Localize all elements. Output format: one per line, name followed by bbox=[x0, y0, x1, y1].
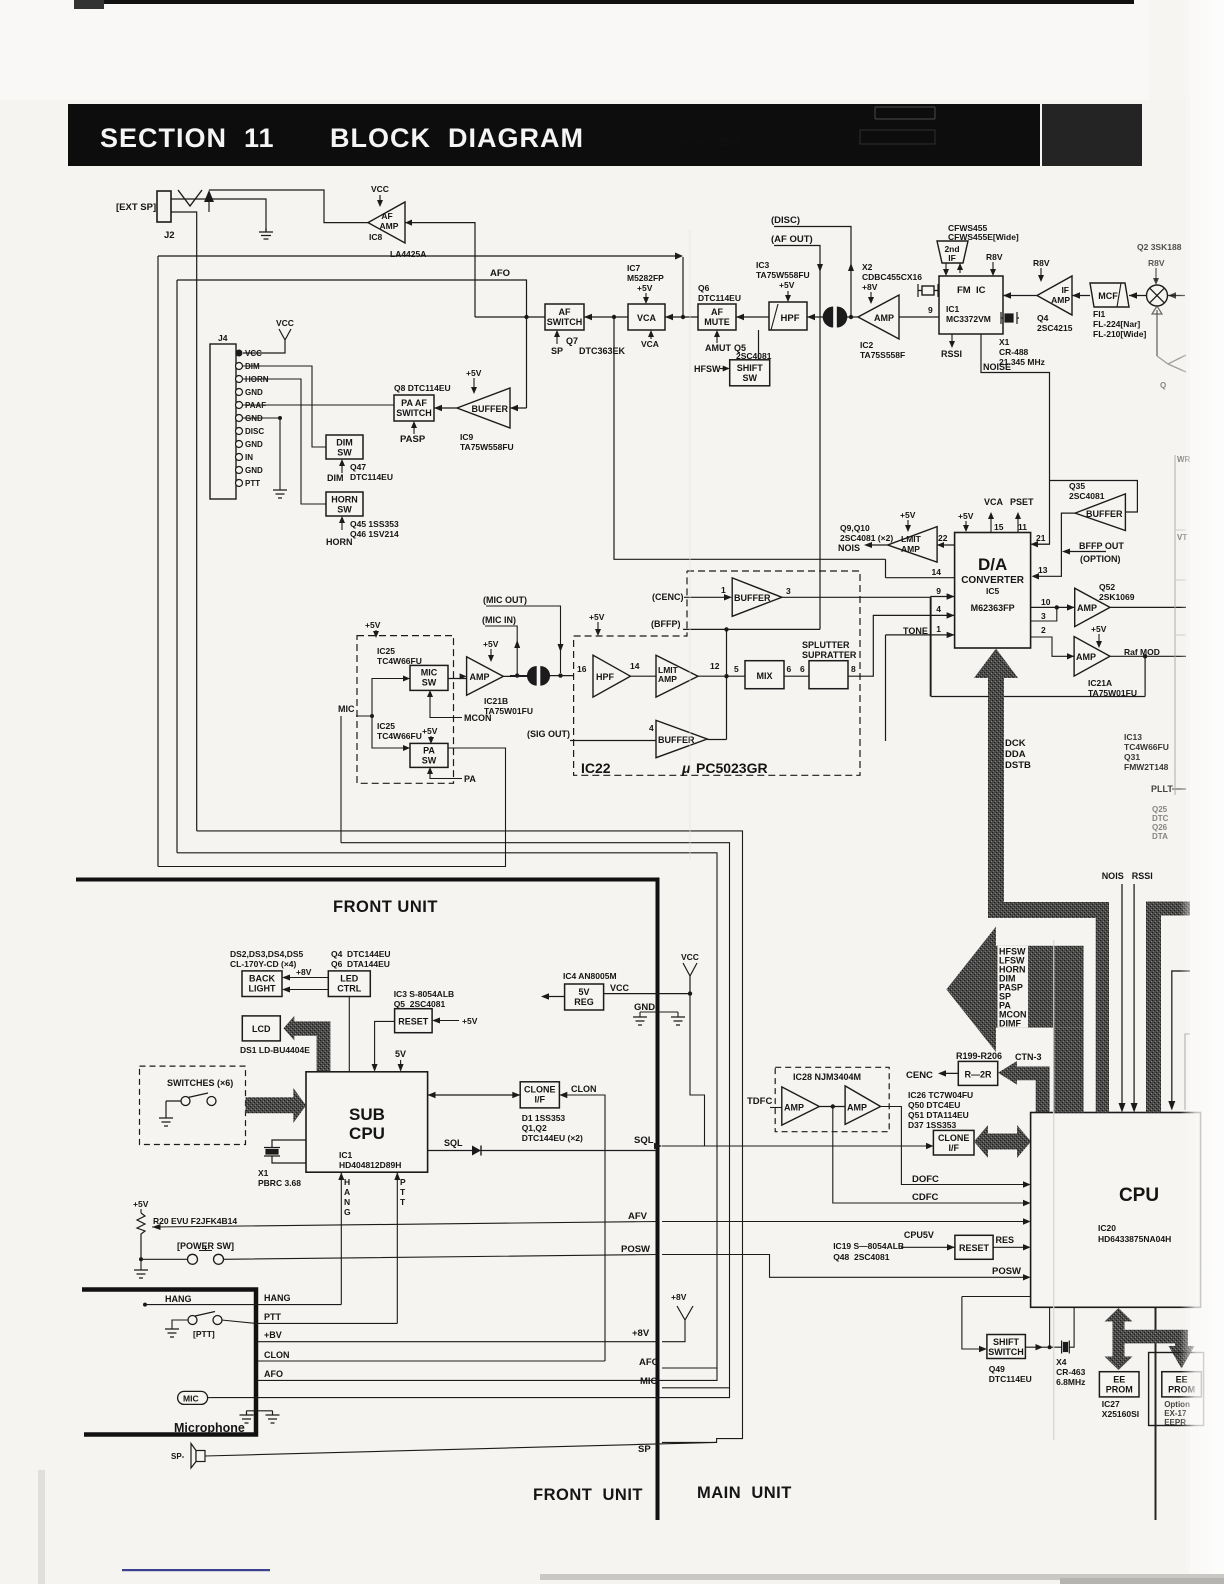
svg-text:11: 11 bbox=[1018, 522, 1027, 532]
wire buffer to PA AF SWITCH bbox=[434, 407, 457, 409]
svg-text:X1: X1 bbox=[258, 1168, 269, 1178]
dashed box IC25 MIC/PA SW bbox=[357, 636, 454, 784]
svg-text:5: 5 bbox=[734, 664, 739, 674]
svg-text:R199-R206: R199-R206 bbox=[956, 1051, 1002, 1061]
svg-text:FRONT UNIT: FRONT UNIT bbox=[333, 898, 438, 916]
pin 14 wire bbox=[886, 559, 955, 577]
svg-text:X25160SI: X25160SI bbox=[1102, 1409, 1139, 1419]
svg-text:2SC4081: 2SC4081 bbox=[1069, 491, 1105, 501]
svg-text:SW: SW bbox=[422, 678, 437, 688]
top page edge black sliver bbox=[74, 0, 1134, 4]
wire HANG bbox=[145, 1304, 341, 1306]
svg-text:DS1 LD-BU4404E: DS1 LD-BU4404E bbox=[240, 1045, 310, 1055]
svg-text:IC21A: IC21A bbox=[1088, 678, 1112, 688]
wire GND bus bbox=[243, 418, 280, 490]
svg-text:14: 14 bbox=[630, 661, 640, 671]
amp1 (IC28a) bbox=[782, 1087, 820, 1125]
svg-text:+5V: +5V bbox=[589, 612, 605, 622]
svg-text:+5V: +5V bbox=[637, 283, 653, 293]
wire buffer input bbox=[510, 407, 527, 409]
wire bus B (SP net) bbox=[177, 853, 717, 1368]
blue pen mark bottom left bbox=[122, 1569, 270, 1571]
DOFC wire bbox=[881, 1107, 1027, 1185]
svg-text:LMIT: LMIT bbox=[901, 534, 922, 544]
svg-text:DIM: DIM bbox=[327, 473, 344, 483]
wire MCF to IF AMP bbox=[1072, 295, 1090, 297]
wire HPF input from cap bbox=[807, 316, 825, 318]
svg-text:IC3: IC3 bbox=[756, 260, 770, 270]
svg-text:AMP: AMP bbox=[1051, 295, 1070, 305]
svg-text:+5V: +5V bbox=[365, 620, 381, 630]
svg-text:DSTB: DSTB bbox=[1005, 760, 1031, 771]
svg-text:Q47: Q47 bbox=[350, 462, 366, 472]
svg-text:SP: SP bbox=[551, 346, 563, 356]
svg-text:AFO: AFO bbox=[639, 1357, 659, 1368]
svg-text:3: 3 bbox=[1041, 611, 1046, 621]
svg-text:Q7: Q7 bbox=[566, 336, 578, 346]
CPU box IC20 bbox=[1031, 1113, 1201, 1308]
wire: jack contact to ground bbox=[171, 199, 266, 232]
svg-text:SQL: SQL bbox=[444, 1138, 463, 1148]
svg-text:DTC114EU: DTC114EU bbox=[989, 1374, 1032, 1384]
svg-text:15: 15 bbox=[994, 522, 1004, 532]
svg-text:TA75W558FU: TA75W558FU bbox=[460, 442, 514, 452]
svg-text:IF: IF bbox=[948, 253, 956, 263]
svg-text:DTC: DTC bbox=[1152, 814, 1169, 823]
svg-text:Q31: Q31 bbox=[1124, 752, 1140, 762]
svg-text:HORN: HORN bbox=[331, 495, 358, 505]
svg-text:R8V: R8V bbox=[1033, 258, 1050, 268]
FRONT UNIT thick border + MAIN UNIT divider bbox=[76, 880, 658, 1521]
svg-text:BUFFER: BUFFER bbox=[1086, 509, 1123, 519]
hatched L arrow to EEPROM2 bbox=[1125, 1330, 1195, 1369]
svg-text:CLONE: CLONE bbox=[524, 1085, 556, 1095]
SWITCHES dashed box bbox=[140, 1066, 246, 1144]
svg-text:MCF: MCF bbox=[1098, 291, 1118, 301]
svg-text:13: 13 bbox=[1038, 565, 1048, 575]
connector J4 bbox=[210, 344, 236, 499]
svg-text:I/F: I/F bbox=[535, 1095, 546, 1105]
svg-text:VCC: VCC bbox=[276, 318, 294, 328]
crystal X1 (right of FM IC) bbox=[1001, 312, 1019, 324]
svg-text:CDFC: CDFC bbox=[912, 1192, 939, 1203]
wire into mixer from right (faded) bbox=[1168, 295, 1185, 297]
svg-text:BFFP OUT: BFFP OUT bbox=[1079, 541, 1124, 551]
svg-text:(OPTION): (OPTION) bbox=[1080, 554, 1121, 564]
svg-text:R20 EVU F2JFK4B14: R20 EVU F2JFK4B14 bbox=[153, 1216, 237, 1226]
svg-text:SHIFT: SHIFT bbox=[737, 363, 764, 373]
svg-text:SECTION 11: SECTION 11 bbox=[100, 123, 275, 153]
svg-text:IC2: IC2 bbox=[860, 340, 874, 350]
svg-text:Q51 DTA114EU: Q51 DTA114EU bbox=[908, 1110, 969, 1120]
svg-text:CLON: CLON bbox=[571, 1084, 597, 1094]
ground (J4) bbox=[273, 490, 287, 498]
bottom right next-page edge bbox=[540, 1574, 1224, 1580]
diode D bbox=[472, 1146, 481, 1156]
dashed box IC22 (stepped) bbox=[574, 571, 860, 775]
svg-text:VCC: VCC bbox=[371, 184, 389, 194]
svg-text:IC19 S—8054ALB: IC19 S—8054ALB bbox=[833, 1241, 904, 1251]
amp2 (IC28b) bbox=[845, 1086, 881, 1125]
Q35 buffer + loop bbox=[1050, 481, 1138, 513]
svg-text:IC13: IC13 bbox=[1124, 732, 1142, 742]
wire AF MUTE to VCA bbox=[665, 316, 698, 318]
ceramic filter X2 (left of FM IC) bbox=[918, 284, 939, 297]
MCF filter FI1 bbox=[1090, 283, 1129, 307]
svg-text:IC5: IC5 bbox=[986, 586, 1000, 596]
page fold faint line bbox=[1053, 940, 1055, 1440]
svg-text:PASP: PASP bbox=[400, 434, 426, 445]
svg-text:2: 2 bbox=[1041, 625, 1046, 635]
wire DIM bbox=[243, 366, 326, 447]
CLONE I/F (main) bbox=[933, 1130, 974, 1155]
svg-text:IC28 NJM3404M: IC28 NJM3404M bbox=[793, 1072, 861, 1082]
amp IC21B bbox=[467, 657, 504, 695]
wire SQL jog bbox=[662, 1145, 933, 1147]
svg-text:6: 6 bbox=[800, 664, 805, 674]
D/A converter IC5 bbox=[955, 533, 1031, 649]
svg-text:GND: GND bbox=[634, 1002, 655, 1013]
LCD DS1 bbox=[242, 1016, 280, 1041]
wire MIX to splutter bbox=[784, 675, 809, 677]
svg-text:DCK: DCK bbox=[1005, 738, 1026, 749]
svg-text:Q: Q bbox=[1160, 381, 1166, 390]
svg-text:D/A: D/A bbox=[978, 555, 1007, 574]
svg-text:6: 6 bbox=[787, 664, 792, 674]
svg-text:IC1: IC1 bbox=[946, 304, 960, 314]
mixer LO input from below (faded) bbox=[1156, 310, 1158, 356]
svg-text:+5V: +5V bbox=[466, 368, 482, 378]
svg-text:+8V: +8V bbox=[862, 282, 878, 292]
svg-text:+5V: +5V bbox=[462, 1016, 478, 1026]
wire mixer to MCF bbox=[1129, 295, 1147, 297]
left page edge shade bbox=[38, 1470, 45, 1584]
wire: vertical at 683 down to VCA row bbox=[682, 257, 684, 317]
svg-text:Microphone: Microphone bbox=[174, 1421, 245, 1435]
svg-text:(AF OUT): (AF OUT) bbox=[771, 234, 813, 245]
svg-text:IC22: IC22 bbox=[581, 760, 611, 776]
big hatched arrow HFSW..DIMF bbox=[946, 927, 1083, 1053]
CDFC wire bbox=[833, 1107, 1027, 1204]
svg-text:POSW: POSW bbox=[992, 1266, 1021, 1277]
hatched band D/A shaft corner to CPU bbox=[988, 902, 1109, 1113]
wire bus D (MIC net) bbox=[341, 843, 730, 1388]
svg-text:DS2,DS3,DS4,DS5: DS2,DS3,DS4,DS5 bbox=[230, 949, 303, 959]
crystal X4 bbox=[1062, 1341, 1070, 1354]
svg-text:CR-463: CR-463 bbox=[1056, 1367, 1086, 1377]
wires J4 pins bbox=[243, 366, 394, 504]
vertical 726.5 bbox=[726, 629, 728, 739]
svg-text:LIGHT: LIGHT bbox=[249, 984, 276, 994]
svg-text:SWITCH: SWITCH bbox=[396, 408, 432, 418]
wide hatched band below arrow bbox=[1053, 1028, 1084, 1113]
svg-text:AFO: AFO bbox=[490, 268, 510, 279]
svg-text:FI1: FI1 bbox=[1093, 309, 1106, 319]
svg-text:SP: SP bbox=[638, 1444, 651, 1455]
HANG PTT pins below SUB CPU bbox=[341, 1172, 397, 1323]
wire shift switch to crystal bbox=[1025, 1346, 1061, 1348]
svg-text:SW: SW bbox=[742, 373, 757, 383]
wire AMP to FM IC bbox=[899, 316, 939, 318]
svg-text:X2: X2 bbox=[862, 262, 873, 272]
AF SWITCH box Q7 bbox=[545, 304, 584, 330]
svg-text:+5V: +5V bbox=[900, 510, 916, 520]
svg-text:SUPRATTER: SUPRATTER bbox=[802, 650, 857, 660]
svg-text:22: 22 bbox=[938, 533, 948, 543]
svg-text:IC25: IC25 bbox=[377, 721, 395, 731]
svg-text:IF: IF bbox=[1061, 285, 1069, 295]
svg-text:Q50 DTC4EU: Q50 DTC4EU bbox=[908, 1100, 960, 1110]
svg-text:CENC: CENC bbox=[906, 1070, 933, 1081]
wire splutter out to pin4 bbox=[848, 615, 955, 676]
svg-text:IC25: IC25 bbox=[377, 646, 395, 656]
faded right column fragments bbox=[1152, 455, 1191, 841]
jack J2 bbox=[157, 190, 202, 222]
svg-text:PROM: PROM bbox=[1106, 1385, 1133, 1395]
coupling capacitor (AF) bbox=[823, 307, 833, 328]
wire PA SW out (loop down to left bus) bbox=[158, 748, 506, 867]
MIC SW box bbox=[410, 665, 448, 690]
svg-text:HORN: HORN bbox=[326, 537, 353, 547]
svg-text:HANG: HANG bbox=[264, 1293, 291, 1303]
hatched arrow SUB CPU to LCD bbox=[284, 1016, 331, 1072]
svg-text:IC1: IC1 bbox=[339, 1150, 353, 1160]
svg-text:DTC363EK: DTC363EK bbox=[579, 346, 626, 356]
svg-text:MAIN UNIT: MAIN UNIT bbox=[697, 1484, 792, 1502]
svg-text:HFSW: HFSW bbox=[694, 364, 721, 374]
svg-text:CDBC455CX16: CDBC455CX16 bbox=[862, 272, 922, 282]
SUB CPU IC1 bbox=[306, 1072, 428, 1172]
svg-text:TA75S558F: TA75S558F bbox=[860, 350, 905, 360]
svg-text:CTN-3: CTN-3 bbox=[1015, 1052, 1042, 1062]
svg-text:CR-488: CR-488 bbox=[999, 347, 1029, 357]
svg-text:FL-224[Nar]: FL-224[Nar] bbox=[1093, 319, 1140, 329]
svg-text:2SC4215: 2SC4215 bbox=[1037, 323, 1073, 333]
svg-text:Q9,Q10: Q9,Q10 bbox=[840, 523, 870, 533]
wire +8V main bbox=[662, 1320, 685, 1342]
svg-text:CLONE: CLONE bbox=[938, 1133, 970, 1143]
svg-text:RESET: RESET bbox=[398, 1017, 429, 1027]
svg-text:+5V: +5V bbox=[958, 511, 974, 521]
[PTT] switch bbox=[188, 1316, 197, 1325]
wire +BV bbox=[258, 1341, 658, 1343]
svg-text:BACK: BACK bbox=[249, 974, 275, 984]
svg-text:Q8 DTC114EU: Q8 DTC114EU bbox=[394, 383, 451, 393]
hatched arrow SWITCHES to SUB CPU bbox=[246, 1088, 307, 1123]
plug arrow bbox=[204, 190, 214, 202]
wire LMIT to MIX bbox=[698, 675, 745, 677]
wire PTT row bbox=[256, 1322, 397, 1324]
svg-text:ADJUSTMENT: ADJUSTMENT bbox=[680, 137, 741, 147]
arrow on AFO line bbox=[675, 253, 683, 260]
svg-text:DDA: DDA bbox=[1005, 749, 1026, 760]
wire AF SWITCH out to left bbox=[475, 316, 545, 318]
EE PROM 2 (optional) bbox=[1149, 1353, 1204, 1426]
divider labels bbox=[621, 1002, 659, 1455]
svg-text:RSSI: RSSI bbox=[941, 349, 962, 359]
svg-text:EE: EE bbox=[1113, 1375, 1125, 1385]
svg-text:AMP: AMP bbox=[847, 1103, 867, 1113]
svg-text:Q49: Q49 bbox=[989, 1364, 1005, 1374]
svg-text:FM IC: FM IC bbox=[957, 285, 986, 296]
VCA box IC7 bbox=[628, 304, 665, 330]
svg-text:HPF: HPF bbox=[596, 672, 615, 682]
svg-text:PA: PA bbox=[464, 774, 476, 784]
arrow into AF AMP input bbox=[405, 220, 412, 226]
svg-text:Raf MOD: Raf MOD bbox=[1124, 647, 1160, 657]
buffer (CENC) bbox=[732, 578, 782, 616]
svg-text:AMP: AMP bbox=[1076, 652, 1096, 662]
wire buffer3 out to pin 9 bbox=[782, 597, 930, 696]
svg-text:HD404812D89H: HD404812D89H bbox=[339, 1160, 401, 1170]
svg-text:AMP: AMP bbox=[874, 313, 894, 323]
svg-text:AMP: AMP bbox=[1077, 603, 1097, 613]
svg-text:IC4 AN8005M: IC4 AN8005M bbox=[563, 971, 617, 981]
faint gray corner bbox=[1185, 1034, 1190, 1110]
svg-text:I/F: I/F bbox=[948, 1143, 959, 1153]
wire PAAF bbox=[243, 404, 394, 406]
svg-text:AMP: AMP bbox=[380, 221, 399, 231]
wire: SP long line bbox=[177, 280, 527, 408]
svg-text:VCA: VCA bbox=[637, 313, 657, 323]
mixer Q2 bbox=[1147, 285, 1168, 306]
thin corner line with arrow bbox=[1172, 971, 1190, 1106]
svg-text:Q6 DTA144EU: Q6 DTA144EU bbox=[331, 959, 390, 969]
svg-text:SUB: SUB bbox=[349, 1105, 385, 1124]
svg-text:[EXT SP]: [EXT SP] bbox=[116, 202, 156, 213]
svg-text:4: 4 bbox=[936, 604, 941, 614]
svg-text:Q6: Q6 bbox=[698, 283, 710, 293]
svg-text:MUTE: MUTE bbox=[704, 317, 730, 327]
svg-text:AFV: AFV bbox=[628, 1211, 648, 1222]
svg-text:TA75W01FU: TA75W01FU bbox=[484, 706, 533, 716]
2nd IF filter CFWS455 bbox=[937, 241, 968, 263]
wire MIC SW to AMP bbox=[448, 678, 467, 680]
FM IC IC1 MC3372VM bbox=[939, 276, 1003, 334]
svg-text:IN: IN bbox=[245, 453, 253, 462]
svg-text:DTC144EU (×2): DTC144EU (×2) bbox=[522, 1133, 583, 1143]
svg-text:SW: SW bbox=[337, 448, 352, 458]
LMIT AMP triangle bbox=[656, 655, 698, 697]
svg-text:+8V: +8V bbox=[296, 967, 312, 977]
wire CLON bbox=[258, 1360, 605, 1362]
node: junction between VCA and AF SWITCH bbox=[612, 315, 616, 319]
svg-text:AMP: AMP bbox=[658, 674, 677, 684]
GND bracket + grounds bbox=[640, 1012, 678, 1017]
svg-text:PTT: PTT bbox=[245, 479, 260, 488]
svg-text:DTA: DTA bbox=[1152, 832, 1168, 841]
wire: jack sleeve long line down bbox=[171, 212, 197, 831]
SHIFT SWITCH Q49 bbox=[962, 1297, 1031, 1350]
svg-text:IC20: IC20 bbox=[1098, 1223, 1116, 1233]
svg-text:RES: RES bbox=[996, 1235, 1015, 1245]
svg-text:AMP: AMP bbox=[784, 1103, 804, 1113]
svg-text:PA AF: PA AF bbox=[401, 398, 427, 408]
svg-text:5V: 5V bbox=[395, 1049, 406, 1059]
svg-text:VCC: VCC bbox=[610, 983, 630, 993]
svg-text:4: 4 bbox=[649, 723, 654, 733]
wire MIC (front) bbox=[213, 1388, 730, 1398]
svg-text:Q4 DTC144EU: Q4 DTC144EU bbox=[331, 949, 391, 959]
Microphone thick outline bbox=[82, 1290, 256, 1435]
svg-text:IC7: IC7 bbox=[627, 263, 641, 273]
svg-text:Q1,Q2: Q1,Q2 bbox=[522, 1123, 547, 1133]
wire bus C bbox=[197, 831, 743, 1443]
svg-text:+5V: +5V bbox=[779, 280, 795, 290]
svg-text:D1 1SS353: D1 1SS353 bbox=[522, 1113, 566, 1123]
svg-text:N: N bbox=[344, 1197, 350, 1207]
svg-text:14: 14 bbox=[932, 567, 942, 577]
svg-text:SWITCH: SWITCH bbox=[547, 317, 583, 327]
svg-text:VCC: VCC bbox=[681, 952, 699, 962]
buffer IC9 bbox=[457, 388, 510, 428]
svg-text:MC3372VM: MC3372VM bbox=[946, 314, 991, 324]
svg-text:+8V: +8V bbox=[632, 1328, 650, 1339]
svg-text:H: H bbox=[344, 1177, 350, 1187]
svg-text:Q46 1SV214: Q46 1SV214 bbox=[350, 529, 399, 539]
svg-text:GND: GND bbox=[245, 466, 263, 475]
svg-text:6.8MHz: 6.8MHz bbox=[1056, 1377, 1085, 1387]
PA SW box bbox=[410, 743, 448, 767]
svg-text:MIC: MIC bbox=[338, 704, 355, 714]
svg-text:(MIC OUT): (MIC OUT) bbox=[483, 595, 527, 605]
wire HPF to AF MUTE bbox=[736, 316, 769, 318]
svg-text:AFO: AFO bbox=[264, 1369, 283, 1379]
svg-text:FL-210[Wide]: FL-210[Wide] bbox=[1093, 329, 1146, 339]
hatched double arrow CLONE-CPU bbox=[974, 1125, 1031, 1158]
svg-text:TA75W558FU: TA75W558FU bbox=[756, 270, 810, 280]
wire: AF AMP input from right bbox=[405, 223, 475, 317]
svg-text:PTT: PTT bbox=[264, 1312, 282, 1322]
svg-text:VCA: VCA bbox=[984, 497, 1004, 507]
svg-text:R8V: R8V bbox=[1148, 258, 1165, 268]
MAIN UNIT right border bbox=[1155, 905, 1157, 1520]
svg-text:X1: X1 bbox=[999, 337, 1010, 347]
wire AFV main bbox=[662, 1221, 1027, 1223]
svg-text:RSSI: RSSI bbox=[1132, 871, 1153, 881]
svg-text:(SIG OUT): (SIG OUT) bbox=[527, 729, 570, 739]
svg-text:CPU5V: CPU5V bbox=[904, 1230, 934, 1240]
wire VCA to AF SWITCH bbox=[584, 316, 628, 318]
grounds below mic rows (bracket on thick vertical) bbox=[247, 1411, 273, 1415]
svg-text:+5V: +5V bbox=[133, 1199, 149, 1209]
svg-text:SQL: SQL bbox=[634, 1135, 654, 1146]
svg-text:+5V: +5V bbox=[1091, 624, 1107, 634]
svg-text:LA4425A: LA4425A bbox=[390, 249, 426, 259]
shift sw Q5 (HFSW) bbox=[730, 360, 770, 386]
svg-text:SHIFT: SHIFT bbox=[993, 1337, 1020, 1347]
svg-text:+BV: +BV bbox=[264, 1330, 282, 1340]
svg-text:R—2R: R—2R bbox=[964, 1070, 992, 1080]
svg-text:MIC: MIC bbox=[183, 1394, 199, 1404]
MIC oval bbox=[178, 1391, 208, 1404]
svg-text:LED: LED bbox=[340, 974, 359, 984]
svg-text:TC4W66FU: TC4W66FU bbox=[377, 731, 422, 741]
svg-text:DIMF: DIMF bbox=[999, 1019, 1021, 1029]
svg-text:BUFFER: BUFFER bbox=[472, 404, 509, 414]
feedback line under D/A bbox=[931, 597, 1145, 696]
svg-text:MIX: MIX bbox=[756, 671, 772, 681]
svg-text:DISC: DISC bbox=[245, 427, 264, 436]
svg-text:T: T bbox=[400, 1187, 406, 1197]
svg-text:2SK1069: 2SK1069 bbox=[1099, 592, 1135, 602]
svg-text:PBRC 3.68: PBRC 3.68 bbox=[258, 1178, 301, 1188]
svg-text:(CENC): (CENC) bbox=[652, 592, 684, 602]
svg-text:POSW: POSW bbox=[621, 1244, 650, 1255]
faded table fragments right of bar bbox=[1042, 104, 1142, 166]
wire IF AMP out to FM IC bbox=[1003, 295, 1037, 297]
svg-text:M62363FP: M62363FP bbox=[971, 603, 1015, 613]
